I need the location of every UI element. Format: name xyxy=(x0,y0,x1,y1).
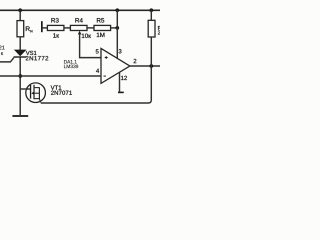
right bar joining stubs xyxy=(38,87,40,99)
wire gate lead xyxy=(20,88,30,90)
node junction on rail right xyxy=(149,8,153,12)
wire pin12 xyxy=(119,72,121,91)
transistor Q1 circle xyxy=(26,83,46,103)
pin label 5 xyxy=(96,49,99,53)
wire left vertical from zener to ground xyxy=(19,57,21,115)
source stub xyxy=(35,98,40,100)
label R6 clipped xyxy=(158,26,161,30)
resistor Rn body xyxy=(17,21,24,37)
wire R6 bottom lead xyxy=(150,37,152,66)
zener VS1 triangle xyxy=(14,50,27,57)
node junction on rail pin3 xyxy=(115,8,119,12)
label DA1.1 xyxy=(64,60,77,63)
plus sign xyxy=(105,56,108,59)
label VS1 xyxy=(26,51,37,55)
wire R4 to R5 xyxy=(87,27,94,29)
label 2N7071 xyxy=(51,91,72,95)
electrode E1 bar xyxy=(41,21,43,32)
trimmer wiper arrow head xyxy=(78,31,82,35)
wire top power rail xyxy=(0,9,160,11)
ground bar xyxy=(12,115,28,117)
label Rn xyxy=(26,26,30,31)
wire R5 to pin3 line xyxy=(111,27,118,29)
wire wiper shaft xyxy=(80,34,101,58)
ground bar pin12 xyxy=(118,92,124,94)
body stub xyxy=(35,92,40,94)
pin label 2 xyxy=(134,59,137,63)
wire output xyxy=(130,65,160,67)
pin label 4 xyxy=(96,69,99,73)
node junction output xyxy=(149,64,153,68)
minus sign xyxy=(104,75,106,77)
resistor R5 body xyxy=(94,25,111,30)
wire pin3 vertical xyxy=(116,10,118,58)
wire source exit xyxy=(39,99,40,103)
gate bar xyxy=(30,85,31,99)
resistor R6 body xyxy=(148,20,155,37)
node junction gate line xyxy=(18,74,22,78)
node junction on rail left xyxy=(18,8,22,12)
pin label 3 xyxy=(119,49,122,53)
pin label 12 xyxy=(121,76,127,80)
wire Rn bottom lead xyxy=(19,37,21,51)
zener VS1 cathode bar xyxy=(14,56,27,57)
wire zener cathode to left edge xyxy=(0,58,14,62)
wire R3 to R4 xyxy=(64,27,71,29)
wire R6 top lead xyxy=(150,10,152,20)
label clipped left k xyxy=(1,52,3,55)
wire inverting input xyxy=(0,75,101,77)
wire Rn top lead xyxy=(19,10,21,20)
label VT1 xyxy=(51,85,62,89)
label R3 xyxy=(51,18,58,22)
op-amp U1 triangle xyxy=(101,48,130,83)
label 1k xyxy=(53,33,59,37)
resistor R3 body xyxy=(47,25,64,30)
label R4 xyxy=(75,18,82,22)
body arrow xyxy=(31,92,33,95)
node junction R5 pin3 xyxy=(115,26,119,30)
resistor R4 body xyxy=(70,25,87,30)
channel bar xyxy=(33,85,34,100)
label LM339 xyxy=(64,65,78,69)
wire E1 to R3 xyxy=(43,27,48,29)
drain stub xyxy=(35,87,40,89)
label clipped left 21 xyxy=(0,46,5,50)
label R5 xyxy=(97,18,104,22)
label 2N1772 xyxy=(26,56,49,60)
label 1M xyxy=(97,33,105,37)
wire output down to source bus xyxy=(41,66,152,103)
label 10k xyxy=(82,34,91,38)
